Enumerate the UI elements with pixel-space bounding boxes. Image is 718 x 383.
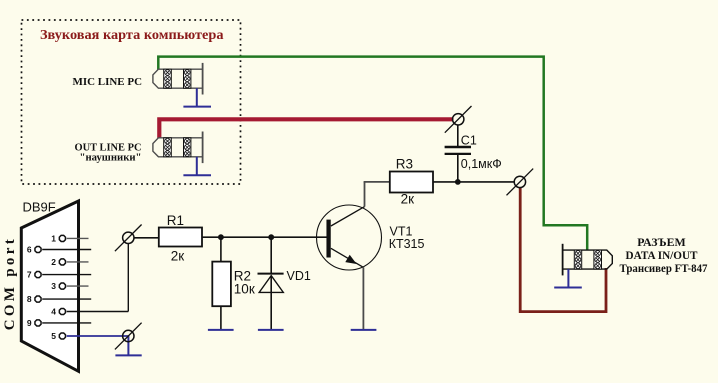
svg-text:2: 2 xyxy=(51,257,56,267)
svg-text:8: 8 xyxy=(27,294,32,304)
svg-text:DB9F: DB9F xyxy=(23,200,56,215)
svg-text:2к: 2к xyxy=(401,191,415,206)
svg-text:5: 5 xyxy=(51,331,56,341)
svg-text:R1: R1 xyxy=(167,213,184,228)
svg-text:6: 6 xyxy=(27,245,32,255)
svg-text:7: 7 xyxy=(27,270,32,280)
svg-text:C1: C1 xyxy=(461,133,477,147)
svg-text:1: 1 xyxy=(51,233,56,243)
svg-text:КТ315: КТ315 xyxy=(389,237,425,251)
svg-text:R3: R3 xyxy=(396,157,413,172)
svg-text:MIC LINE PC: MIC LINE PC xyxy=(73,76,143,88)
svg-text:VD1: VD1 xyxy=(287,269,311,283)
svg-text:2к: 2к xyxy=(171,248,185,263)
svg-text:"наушники": "наушники" xyxy=(80,151,142,163)
svg-text:Звуковая карта компьютера: Звуковая карта компьютера xyxy=(40,28,223,43)
svg-text:Трансивер FT-847: Трансивер FT-847 xyxy=(620,261,708,275)
svg-text:DATA IN/OUT: DATA IN/OUT xyxy=(626,248,698,262)
svg-text:10к: 10к xyxy=(234,282,255,297)
svg-text:4: 4 xyxy=(51,307,56,317)
svg-text:9: 9 xyxy=(27,318,32,328)
svg-text:0,1мкФ: 0,1мкФ xyxy=(461,157,502,171)
svg-text:3: 3 xyxy=(51,281,56,291)
svg-text:РАЗЪЕМ: РАЗЪЕМ xyxy=(637,235,686,249)
